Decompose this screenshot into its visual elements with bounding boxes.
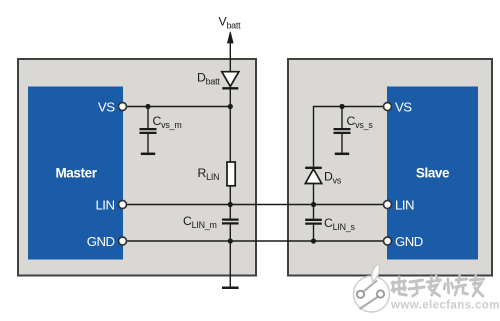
wire: LIN bus line	[123, 204, 388, 206]
wire: master VS pin to supply rail	[123, 106, 230, 108]
ground (Cvs_s)	[335, 153, 349, 156]
node: GND / CLIN_m junction	[228, 238, 233, 243]
pin GND (slave)	[384, 237, 392, 245]
char dian	[392, 277, 406, 295]
node: LIN / Dvs junction	[311, 202, 316, 207]
pin LIN (master)	[119, 201, 127, 209]
svg-text:www.elecfans.com: www.elecfans.com	[390, 300, 500, 312]
svg-text:GND: GND	[87, 234, 115, 249]
capacitor CLIN_s	[305, 205, 322, 242]
wire: Dbatt to VS node	[229, 88, 231, 106]
wire: GND node down to system ground	[229, 241, 231, 287]
ground (system)	[222, 286, 239, 289]
master ECU gray box	[18, 59, 256, 276]
char fa	[427, 276, 441, 296]
svg-text:VS: VS	[395, 99, 412, 114]
node: VS / Dbatt junction	[228, 104, 233, 109]
node: LIN / RLIN junction	[228, 202, 233, 207]
wire: supply rail down to RLIN	[229, 107, 231, 163]
char zi	[409, 280, 424, 296]
svg-text:LIN: LIN	[95, 197, 114, 212]
char you	[470, 276, 484, 296]
master blue block	[28, 87, 123, 260]
svg-text:GND: GND	[395, 234, 423, 249]
pin GND (master)	[119, 237, 127, 245]
slave blue block	[387, 87, 478, 260]
wire: slave VS pin line with corner down to Dvs	[314, 107, 388, 167]
svg-text:LIN: LIN	[395, 197, 414, 212]
diode Dbatt	[222, 72, 239, 89]
svg-text:Master: Master	[55, 166, 97, 181]
resistor RLIN	[227, 162, 235, 186]
diode Dvs	[305, 168, 322, 205]
ground (Cvs_m)	[141, 153, 155, 156]
node: Cvs_s tap	[339, 104, 344, 109]
svg-text:Slave: Slave	[416, 166, 450, 181]
svg-text:VS: VS	[98, 99, 115, 114]
watermark text 电子发烧友 (drawn strokes)	[392, 276, 484, 296]
pin LIN (slave)	[384, 201, 392, 209]
Vbatt supply arrow	[228, 32, 234, 72]
pin VS (slave)	[384, 103, 392, 111]
capacitor Cvs_m	[140, 107, 157, 153]
slave ECU gray box	[288, 59, 492, 276]
node: Cvs_m tap	[145, 104, 150, 109]
watermark logo circle	[354, 264, 390, 313]
char shao	[444, 276, 467, 295]
pin VS (master)	[119, 103, 127, 111]
wire: RLIN to LIN node	[229, 186, 231, 205]
node: GND / CLIN_s junction	[311, 238, 316, 243]
capacitor CLIN_m	[222, 205, 239, 242]
wire: GND bus line	[123, 240, 388, 242]
capacitor Cvs_s	[334, 107, 351, 153]
